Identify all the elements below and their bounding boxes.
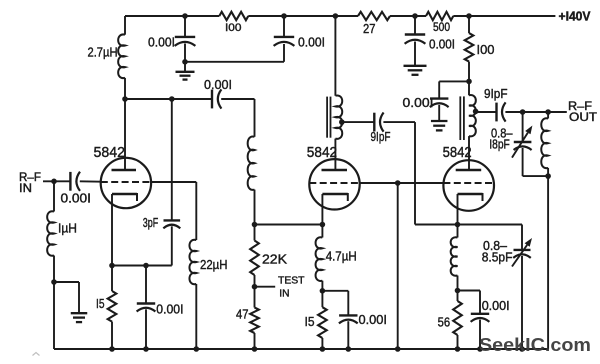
- svg-text:5842: 5842: [94, 144, 126, 161]
- svg-text:0.00I: 0.00I: [429, 37, 455, 52]
- svg-text:0.00I: 0.00I: [359, 312, 388, 327]
- svg-text:2.7µH: 2.7µH: [88, 45, 118, 60]
- svg-text:0.00I: 0.00I: [403, 95, 434, 110]
- svg-text:I8pF: I8pF: [489, 136, 510, 151]
- svg-text:0.00I: 0.00I: [148, 34, 175, 49]
- svg-text:22K: 22K: [262, 252, 287, 267]
- svg-text:27: 27: [363, 22, 376, 36]
- svg-text:500: 500: [433, 22, 450, 34]
- svg-text:I00: I00: [477, 42, 495, 57]
- svg-text:IµH: IµH: [58, 220, 77, 235]
- svg-text:9IpF: 9IpF: [484, 86, 508, 101]
- svg-text:0.00I: 0.00I: [482, 298, 510, 313]
- svg-text:0.00I: 0.00I: [61, 190, 92, 205]
- svg-text:47: 47: [236, 307, 249, 322]
- svg-text:IN: IN: [19, 183, 32, 195]
- svg-text:5842: 5842: [307, 144, 337, 161]
- svg-text:0.00I: 0.00I: [204, 77, 232, 92]
- svg-text:3pF: 3pF: [143, 215, 159, 230]
- svg-text:4.7µH: 4.7µH: [326, 248, 357, 263]
- svg-text:IN: IN: [279, 289, 289, 300]
- svg-text:+I40V: +I40V: [559, 10, 592, 24]
- svg-text:0.00I: 0.00I: [156, 301, 183, 316]
- svg-text:I00: I00: [225, 22, 242, 34]
- svg-text:22µH: 22µH: [200, 257, 228, 272]
- svg-text:8.5pF: 8.5pF: [482, 249, 513, 264]
- svg-text:I5: I5: [96, 296, 105, 311]
- svg-text:9IpF: 9IpF: [371, 129, 391, 144]
- svg-text:I5: I5: [305, 314, 315, 329]
- svg-text:0.00I: 0.00I: [298, 34, 325, 49]
- svg-text:56: 56: [438, 315, 451, 330]
- svg-text:SeekIC.com: SeekIC.com: [479, 334, 591, 355]
- svg-text:OUT: OUT: [569, 112, 597, 124]
- svg-text:5842: 5842: [443, 144, 472, 161]
- svg-text:TEST: TEST: [278, 275, 305, 286]
